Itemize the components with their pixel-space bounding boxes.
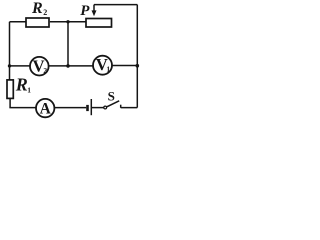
ammeter A xyxy=(36,99,54,117)
wire left vertical lower xyxy=(9,98,11,107)
svg-text:A: A xyxy=(40,100,52,117)
wire junction to V1 xyxy=(68,65,93,67)
wire V1 to right xyxy=(112,65,137,67)
junction node middle-right xyxy=(136,64,140,68)
svg-text:S: S xyxy=(108,89,115,104)
svg-text:R: R xyxy=(15,74,28,94)
wire top-left horizontal xyxy=(10,21,27,23)
resistor R1 xyxy=(7,80,13,99)
wire wiper to top-right xyxy=(94,4,137,6)
svg-text:2: 2 xyxy=(43,66,47,75)
rheostat wiper arrow xyxy=(93,5,95,11)
junction node top xyxy=(66,20,69,23)
wire V2 to junction xyxy=(49,65,68,67)
switch fixed contact tick xyxy=(120,105,122,108)
resistor R2 xyxy=(26,18,49,27)
junction node middle-center xyxy=(66,64,70,68)
wire middle-left (to V2) xyxy=(10,65,31,67)
svg-text:P: P xyxy=(80,3,90,19)
svg-text:2: 2 xyxy=(43,8,47,17)
wire ammeter to battery xyxy=(55,107,87,109)
wire right vertical xyxy=(136,5,138,108)
battery negative plate (short thick) xyxy=(86,105,89,111)
rheostat P body xyxy=(86,19,112,28)
battery positive plate (long thin) xyxy=(90,99,92,115)
junction node middle-left xyxy=(8,64,11,67)
rheostat wiper arrowhead xyxy=(92,10,97,16)
wire center branch vertical xyxy=(67,22,69,66)
voltmeter V2 xyxy=(30,57,49,76)
wire left vertical upper xyxy=(9,22,11,80)
wire top middle (R2 to P) xyxy=(50,21,86,23)
wire switch to bottom-right xyxy=(121,107,138,109)
svg-text:1: 1 xyxy=(27,85,31,94)
svg-text:1: 1 xyxy=(106,65,110,74)
voltmeter V1 xyxy=(93,56,112,75)
svg-text:R: R xyxy=(31,0,43,17)
wire bottom left xyxy=(9,107,36,109)
switch S pivot xyxy=(104,106,107,109)
switch S blade xyxy=(107,101,120,107)
wire battery to switch xyxy=(92,107,104,109)
